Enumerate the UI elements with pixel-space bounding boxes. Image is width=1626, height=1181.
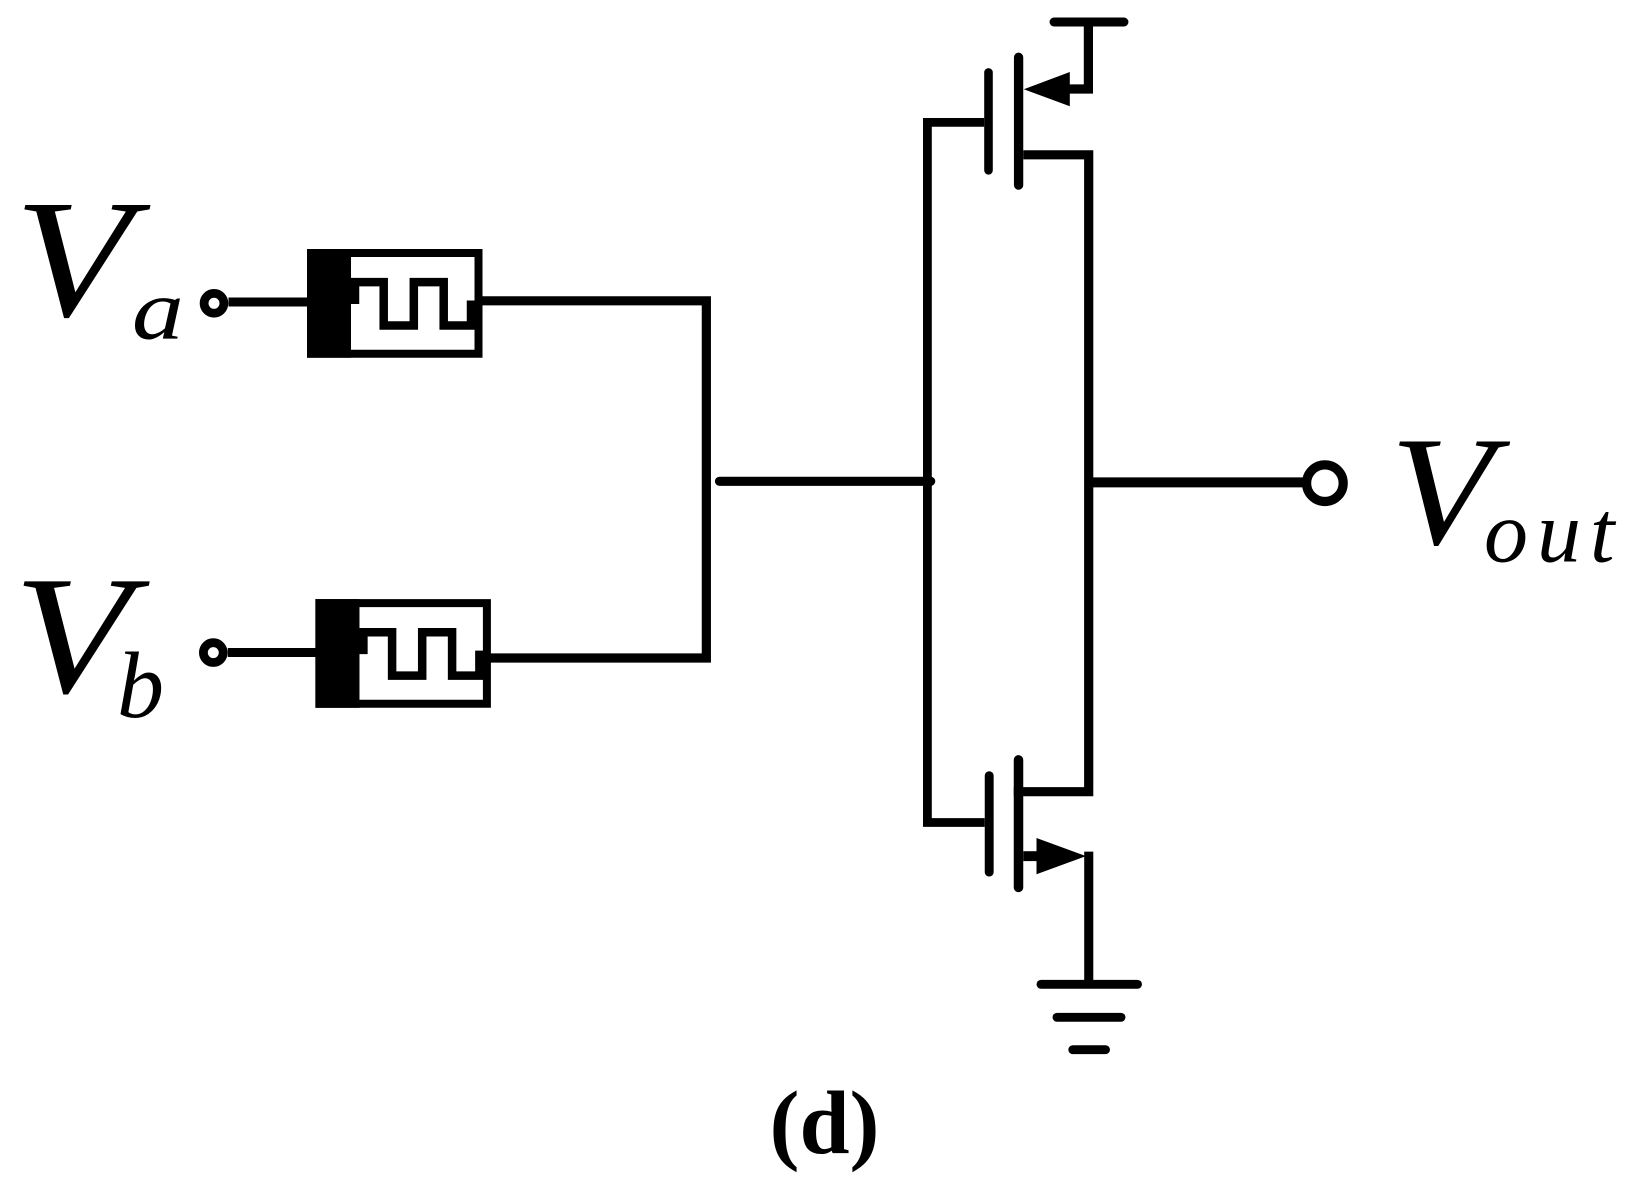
label Vout [1390, 406, 1623, 582]
transistor Q2 NMOS gate bar [985, 776, 994, 872]
memristor M1 (input Va) [307, 249, 483, 358]
arrow NMOS source (points right to source wire) [1037, 838, 1087, 874]
memristor M2 (input Vb) [315, 599, 491, 708]
svg-text:(d): (d) [770, 1074, 880, 1173]
wire output node to Vout terminal [1089, 477, 1307, 487]
label Va [14, 166, 184, 357]
wire M1 to gate node (down to M2 lead) [483, 301, 707, 658]
terminal Va (open circle) [204, 293, 224, 313]
terminal Vb (open circle) [203, 643, 223, 663]
wire gate feed (common node to transistor gates) [720, 477, 931, 486]
transistor Q1 PMOS channel bar [1014, 57, 1023, 185]
wire PMOS drain / output rail / NMOS drain [1014, 155, 1089, 792]
arrow PMOS source (points left to channel) [1024, 72, 1070, 106]
wire VDD to PMOS source [1070, 22, 1089, 89]
wire Vb terminal to memristor M2 [228, 648, 316, 657]
svg-text:b: b [117, 634, 164, 738]
transistor Q1 PMOS gate bar [984, 72, 993, 170]
svg-text:out: out [1484, 485, 1623, 582]
svg-text:V: V [14, 166, 151, 353]
svg-text:a: a [132, 262, 184, 357]
wire gate rail (PMOS gate to NMOS gate) [927, 122, 984, 822]
power VDD bar [1054, 18, 1124, 27]
wire NMOS source stub [1023, 851, 1038, 861]
wire Va terminal to memristor M1 [229, 297, 309, 306]
wire NMOS source to ground [1084, 852, 1093, 985]
transistor Q2 NMOS channel bar [1014, 760, 1024, 888]
label Vb [14, 543, 165, 738]
ground symbol [1041, 984, 1138, 1049]
terminal Vout (open circle) [1307, 465, 1344, 502]
